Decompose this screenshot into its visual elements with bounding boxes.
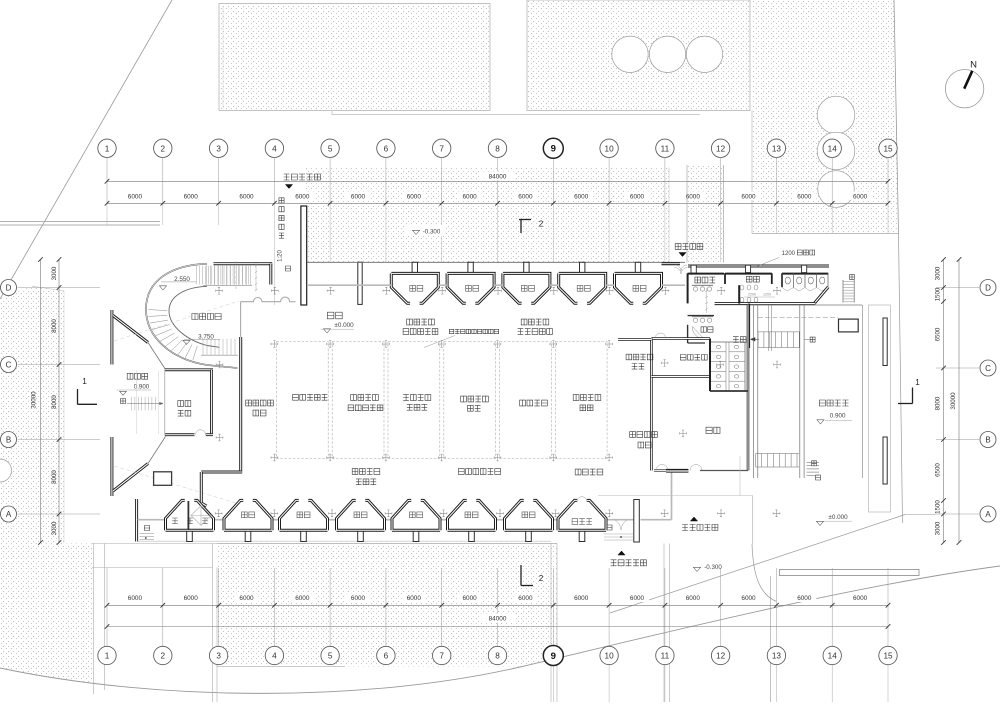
evacuation exit corridor — [686, 165, 688, 263]
svg-text:2200: 2200 — [748, 293, 756, 297]
lecture hall east boundary — [862, 305, 864, 478]
site line right — [899, 234, 903, 524]
AC machine room — [165, 368, 213, 371]
urinals — [740, 285, 744, 290]
top dimension line 84000 — [107, 180, 888, 182]
grid vertical lines bottom — [106, 568, 108, 646]
survey crosses top row — [216, 287, 223, 294]
storeroom-south wall — [666, 469, 688, 472]
svg-text:C: C — [985, 364, 991, 373]
accessible ramp wall — [301, 206, 307, 305]
grid circles top — [98, 139, 116, 157]
svg-text:6000: 6000 — [518, 193, 533, 200]
svg-text:3: 3 — [216, 652, 221, 661]
building top boundary line — [307, 261, 685, 263]
svg-text:6000: 6000 — [128, 193, 143, 200]
svg-text:6000: 6000 — [853, 193, 868, 200]
hatch wedge left — [0, 286, 92, 692]
row lines and circles left — [18, 287, 101, 289]
svg-text:6000: 6000 — [407, 193, 422, 200]
svg-text:2: 2 — [539, 220, 544, 229]
tree circles left edge — [0, 459, 12, 482]
svg-text:1500: 1500 — [935, 500, 942, 514]
hatch evacuation corridor strip — [687, 166, 724, 263]
wall right of strong-power room — [634, 500, 640, 543]
svg-text:8000: 8000 — [51, 470, 58, 484]
cleaning room walls — [688, 273, 724, 275]
stall room stem — [802, 265, 807, 272]
white mask below site curve clips hatch — [0, 566, 1000, 702]
road line and arc SE of building — [752, 496, 754, 545]
svg-text:84000: 84000 — [489, 615, 507, 622]
svg-text:8: 8 — [495, 144, 500, 153]
wall stub x739 — [738, 285, 740, 303]
svg-text:A: A — [985, 510, 991, 519]
svg-text:±0.000: ±0.000 — [334, 322, 354, 329]
viewing corner stair — [131, 397, 133, 411]
svg-text:D: D — [985, 283, 991, 292]
pedestrian main entrance label — [284, 174, 321, 180]
diagonal wall toilet block — [814, 287, 828, 304]
svg-text:3000: 3000 — [51, 266, 58, 280]
svg-text:84000: 84000 — [489, 174, 507, 181]
svg-text:6: 6 — [384, 144, 389, 153]
svg-text:6000: 6000 — [184, 193, 199, 200]
site road lines left — [0, 221, 160, 223]
svg-text:6000: 6000 — [797, 595, 812, 602]
wash counter second — [688, 315, 714, 317]
svg-text:N: N — [970, 60, 977, 71]
top exhibition halls — [412, 262, 417, 273]
smoke exhaust room — [651, 337, 710, 340]
viewing corner left wall — [110, 310, 113, 365]
level -0.300 south — [693, 567, 700, 571]
storeroom walls — [651, 375, 710, 378]
svg-text:B: B — [6, 435, 11, 444]
svg-text:0.900: 0.900 — [134, 384, 150, 391]
svg-text:11: 11 — [661, 144, 670, 153]
svg-text:15: 15 — [883, 652, 893, 661]
projection room — [839, 319, 859, 332]
hatch parking band bottom — [217, 544, 557, 667]
svg-text:1: 1 — [915, 378, 920, 387]
womens stall block — [710, 342, 745, 391]
top wall piece east of halls — [662, 262, 681, 265]
secondary pedestrian entrance label — [611, 560, 647, 566]
courtyard lower stair treads — [202, 339, 204, 355]
svg-text:30000: 30000 — [31, 391, 38, 409]
level -0.300 forecourt — [406, 225, 446, 236]
viewing corner shaft lines — [136, 371, 138, 435]
svg-text:±0.000: ±0.000 — [828, 514, 848, 521]
svg-text:B: B — [985, 435, 990, 444]
svg-text:6000: 6000 — [630, 193, 645, 200]
entrance steps — [196, 266, 198, 285]
grid circles bottom — [98, 646, 116, 664]
svg-text:4: 4 — [272, 144, 277, 153]
bottom dimension line 84000 — [107, 626, 888, 628]
svg-text:11: 11 — [661, 652, 670, 661]
grid vertical lines top — [106, 158, 108, 203]
door arc logistics — [615, 520, 628, 530]
small service box — [154, 472, 172, 486]
logistics entrance label — [682, 525, 718, 531]
service lift at weak-power room — [187, 501, 189, 530]
svg-text:3000: 3000 — [935, 521, 942, 535]
svg-text:6: 6 — [384, 652, 389, 661]
svg-text:14: 14 — [828, 144, 838, 153]
accessible wc room — [687, 325, 689, 343]
svg-text:1:20: 1:20 — [278, 250, 284, 262]
svg-text:6000: 6000 — [128, 595, 143, 602]
lower left wall — [135, 499, 138, 542]
svg-text:13: 13 — [772, 144, 782, 153]
svg-text:9: 9 — [551, 651, 556, 662]
toilet block top wall — [688, 265, 829, 268]
site curve bottom — [0, 566, 1000, 693]
courtyard radial stair treads — [193, 346, 198, 360]
svg-text:7: 7 — [439, 144, 444, 153]
stall room walls and stalls — [782, 273, 828, 275]
foyer glass line scallops — [241, 297, 296, 302]
top dimension line 6000s — [107, 202, 888, 204]
wall piece at grid 4.5 — [358, 262, 362, 304]
svg-text:6000: 6000 — [518, 595, 533, 602]
lecture hall aisles — [753, 305, 755, 479]
courtyard label — [192, 314, 221, 320]
svg-text:9: 9 — [551, 144, 556, 155]
stair dim chain upper — [255, 263, 257, 291]
svg-text:8000: 8000 — [935, 396, 942, 410]
svg-text:1: 1 — [105, 652, 110, 661]
svg-text:12: 12 — [716, 652, 726, 661]
partition note label — [449, 329, 498, 333]
exhibition zone labels — [246, 400, 274, 406]
svg-text:12: 12 — [716, 144, 726, 153]
svg-text:8000: 8000 — [51, 395, 58, 409]
section marker 1 right — [898, 403, 913, 405]
survey crosses partition rows — [271, 341, 278, 348]
svg-text:6000: 6000 — [797, 193, 812, 200]
svg-text:2: 2 — [539, 574, 544, 583]
hatch block top-right — [752, 0, 899, 234]
svg-text:6000: 6000 — [407, 595, 422, 602]
viewing corner labels — [127, 373, 147, 379]
svg-text:6000: 6000 — [462, 193, 477, 200]
mens toilet walls — [725, 273, 772, 275]
level +-0.000 east — [816, 521, 823, 525]
svg-text:D: D — [6, 283, 12, 292]
svg-text:2: 2 — [161, 144, 166, 153]
svg-text:0.900: 0.900 — [830, 412, 846, 419]
svg-text:6000: 6000 — [574, 193, 589, 200]
section marker 2 bottom — [520, 565, 522, 586]
svg-text:15: 15 — [883, 144, 893, 153]
gray connector line bottom halls — [138, 519, 166, 521]
svg-text:6000: 6000 — [351, 595, 366, 602]
svg-text:10: 10 — [605, 652, 615, 661]
svg-text:3000: 3000 — [51, 521, 58, 535]
cleaning room basins — [692, 284, 713, 286]
svg-text:5: 5 — [328, 652, 333, 661]
lecture hall upper seats — [758, 331, 800, 333]
seed room wall — [618, 338, 651, 340]
svg-text:C: C — [6, 360, 12, 369]
road edges bottom-left — [93, 544, 95, 695]
svg-text:6000: 6000 — [351, 193, 366, 200]
gray connector line top halls — [307, 284, 391, 286]
svg-text:6000: 6000 — [462, 595, 477, 602]
curved courtyard outer arc — [146, 264, 238, 368]
bottom dimension line 6000s — [107, 604, 888, 606]
svg-text:6000: 6000 — [741, 595, 756, 602]
svg-text:6000: 6000 — [295, 193, 310, 200]
small stair SE — [807, 462, 820, 464]
svg-text:30000: 30000 — [950, 392, 957, 410]
svg-text:6000: 6000 — [741, 193, 756, 200]
tree circles top-right — [817, 96, 855, 134]
svg-text:6500: 6500 — [935, 327, 942, 341]
retaining wall bar bottom-right — [780, 570, 920, 576]
right vertical dimension lines — [943, 260, 945, 543]
svg-text:5: 5 — [328, 144, 333, 153]
svg-text:A: A — [6, 510, 12, 519]
bottom exhibition halls — [187, 531, 193, 542]
unit2 hall label — [630, 432, 658, 438]
svg-text:1500: 1500 — [935, 287, 942, 301]
svg-text:2: 2 — [161, 652, 166, 661]
svg-text:-0.300: -0.300 — [423, 229, 441, 236]
svg-text:6000: 6000 — [184, 595, 199, 602]
svg-text:6000: 6000 — [239, 193, 254, 200]
lecture hall lower seats — [756, 453, 799, 455]
dashed exhibition partitions — [276, 342, 328, 459]
svg-text:1: 1 — [105, 144, 110, 153]
svg-text:3000: 3000 — [935, 266, 942, 280]
east wall bars — [883, 318, 887, 366]
north arrow — [945, 70, 983, 108]
svg-text:8: 8 — [495, 652, 500, 661]
interior line y496 — [598, 495, 753, 497]
main wall foyer to lower hall — [239, 337, 242, 473]
east terrace outline — [869, 305, 891, 512]
hatch block top-left — [219, 4, 490, 111]
svg-text:1: 1 — [82, 377, 87, 386]
womens toilet wall — [748, 304, 750, 348]
section marker 1 left — [77, 389, 79, 404]
svg-text:8000: 8000 — [51, 319, 58, 333]
svg-text:14: 14 — [828, 652, 838, 661]
svg-text:6000: 6000 — [686, 595, 701, 602]
svg-text:6000: 6000 — [295, 595, 310, 602]
viewing corner diagonal walls — [113, 316, 148, 343]
svg-text:1200: 1200 — [763, 293, 771, 297]
courtyard top stair treads — [206, 266, 208, 286]
womens corridor east lines — [768, 305, 770, 351]
left vertical dimension lines — [40, 260, 42, 543]
svg-text:6500: 6500 — [935, 463, 942, 477]
mens toilet stem — [746, 265, 751, 272]
hatch block top-center — [527, 0, 750, 111]
tiny dim chain toilets — [706, 288, 708, 313]
svg-text:7: 7 — [439, 652, 444, 661]
row lines and circles right — [936, 287, 979, 289]
ramp labels — [279, 198, 284, 238]
foyer label — [327, 312, 342, 319]
section marker 2 top — [519, 219, 531, 221]
lecture hall labels — [819, 400, 848, 406]
construction dashes viewing corner — [114, 301, 239, 341]
hatch forecourt band — [306, 168, 669, 263]
road edges bottom-center — [550, 544, 552, 703]
svg-text:6000: 6000 — [686, 193, 701, 200]
svg-text:4: 4 — [272, 652, 277, 661]
svg-text:6000: 6000 — [239, 595, 254, 602]
stair top-right — [842, 280, 844, 303]
svg-text:3: 3 — [216, 144, 221, 153]
entrance L wall top-left — [214, 262, 273, 265]
curved courtyard inner arc — [169, 286, 220, 347]
svg-text:6000: 6000 — [574, 595, 589, 602]
site diagonal top-left — [0, 0, 172, 299]
svg-text:-0.300: -0.300 — [704, 564, 722, 571]
ground line — [136, 540, 551, 542]
tree circles top-center — [612, 36, 648, 72]
svg-text:13: 13 — [772, 652, 782, 661]
svg-text:10: 10 — [605, 144, 615, 153]
survey crosses bottom row — [215, 510, 222, 517]
svg-text:6000: 6000 — [630, 595, 645, 602]
main heavy wall y303 — [715, 302, 816, 305]
cleaning room stem — [691, 265, 696, 273]
svg-text:1200: 1200 — [782, 251, 796, 257]
svg-text:6000: 6000 — [853, 595, 868, 602]
